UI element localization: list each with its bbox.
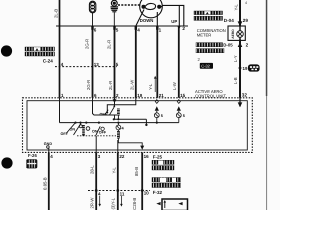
- svg-text:D-05: D-05: [223, 43, 233, 48]
- svg-text:2L-R: 2L-R: [107, 40, 112, 49]
- wire W3 vertical x114.5: [114, 26, 116, 98]
- switch S1 down arm: [136, 10, 144, 27]
- dashed connector line C-24: [55, 66, 117, 68]
- interior dashed line: [77, 135, 116, 137]
- svg-text:(3)Y-L: (3)Y-L: [110, 197, 115, 209]
- svg-text:4: 4: [245, 1, 247, 5]
- drop W2: [93, 98, 118, 115]
- svg-text:Y-L: Y-L: [148, 83, 153, 90]
- control unit inner solid box: [27, 101, 247, 150]
- drop W1: [59, 98, 61, 123]
- wire 15 drop: diamond, arrow, contact: [176, 100, 181, 123]
- wire W6 vertical x178.6: [178, 26, 180, 98]
- meter lamp: [237, 26, 244, 40]
- svg-text:Y-L: Y-L: [111, 167, 116, 174]
- coil L1 on wire W2: [89, 1, 95, 26]
- svg-text:2L-W: 2L-W: [129, 79, 134, 90]
- GND wire to pin 4: [48, 148, 50, 153]
- bus B: [114, 118, 147, 120]
- dashed link M1 to switch S1: [118, 4, 140, 6]
- label C-32 black: [200, 63, 213, 69]
- motor M1 on wire W3: [111, 0, 119, 26]
- D-05 arrow up: [238, 42, 243, 47]
- punch dot bottom: [1, 157, 12, 168]
- bottom wire pin22: [117, 153, 119, 211]
- wire 21 drop: diamond, arrow, contact: [154, 100, 159, 123]
- svg-text:DOWN: DOWN: [140, 18, 154, 23]
- svg-text:2: 2: [246, 43, 249, 48]
- drop W3: [114, 98, 116, 106]
- wire W2 vertical x92.5: [92, 26, 94, 98]
- wire W7 mid vertical: [239, 40, 241, 97]
- svg-text:6: 6: [94, 27, 97, 32]
- relay arm W4: [105, 110, 108, 115]
- svg-text:1: 1: [159, 27, 162, 32]
- svg-text:2L-B: 2L-B: [53, 9, 58, 18]
- svg-text:2G-R: 2G-R: [85, 39, 90, 49]
- svg-text:19: 19: [243, 66, 248, 71]
- svg-text:11: 11: [120, 192, 125, 197]
- svg-text:13: 13: [94, 62, 100, 67]
- svg-text:29: 29: [243, 18, 249, 23]
- svg-text:OFF: OFF: [99, 131, 107, 135]
- connector row2: [196, 49, 224, 53]
- connector D-04 block: [194, 11, 223, 20]
- bottom wire pin4: [48, 153, 50, 211]
- bottom wire pin3: [95, 153, 97, 211]
- bottom wire pin16: [141, 153, 143, 211]
- svg-text:4: 4: [137, 27, 140, 32]
- wire W4 vertical x135.8: [135, 26, 137, 98]
- junction dot meter bottom: [239, 39, 241, 41]
- connector F-32 block: [152, 178, 181, 188]
- pin16 interior feed: [118, 139, 142, 147]
- svg-text:2: 2: [182, 26, 185, 31]
- connector D-05 row1: [196, 43, 223, 47]
- svg-text:5: 5: [116, 27, 119, 32]
- svg-text:F-25: F-25: [153, 154, 163, 159]
- bus line top assembly: [56, 25, 188, 27]
- svg-text:C28-B: C28-B: [132, 198, 137, 210]
- svg-text:2G-R: 2G-R: [86, 80, 91, 90]
- svg-text:2R-W: 2R-W: [90, 197, 95, 209]
- svg-text:C-24: C-24: [43, 58, 53, 63]
- contact circles mid: [86, 127, 90, 131]
- svg-text:28-L: 28-L: [89, 165, 94, 174]
- direction arrow beside W5: [154, 76, 157, 92]
- coil R3: [116, 123, 119, 139]
- drop W4 with jog: [107, 98, 136, 112]
- bus A: [60, 122, 179, 124]
- svg-text:2L-R: 2L-R: [108, 81, 113, 90]
- junction 19 dot: [239, 67, 242, 70]
- switch S1 top link to pin2: [162, 5, 184, 26]
- connector F-26 block: [27, 160, 38, 169]
- switch arm a: [67, 123, 76, 133]
- wire 32 arrow into box: [239, 98, 241, 107]
- connector F-25 block: [152, 160, 174, 170]
- svg-text:22: 22: [119, 154, 125, 159]
- bus B to A link: [145, 119, 147, 125]
- svg-text:AERO: AERO: [231, 29, 235, 39]
- svg-text:F-32: F-32: [153, 190, 163, 195]
- switch S1 circle: [140, 0, 163, 18]
- resistor bar: [82, 125, 85, 136]
- svg-text:16: 16: [144, 154, 150, 159]
- svg-text:C-32: C-32: [201, 64, 210, 69]
- svg-text:85-B: 85-B: [134, 167, 139, 176]
- svg-text:L-W: L-W: [172, 81, 177, 90]
- wire W5 vertical x157.3: [156, 26, 158, 98]
- arrow into meter: [238, 21, 243, 26]
- svg-text:UP: UP: [171, 19, 177, 24]
- control unit outer dashed box: [23, 98, 253, 153]
- pin ticks below bus: [91, 26, 158, 30]
- GND contact: [47, 146, 50, 149]
- interior drop to pin 22: [117, 140, 119, 153]
- svg-text:L-B: L-B: [233, 77, 238, 84]
- meter box U2: [228, 26, 245, 40]
- bottom labels with arrows: [90, 197, 138, 210]
- interior drop to pin 3: [95, 136, 97, 153]
- svg-text:10: 10: [144, 191, 150, 196]
- svg-text:METER: METER: [197, 33, 212, 38]
- motor box bottom: [156, 199, 187, 211]
- contact circle 4: [116, 125, 121, 130]
- svg-text:0.85-B: 0.85-B: [42, 177, 47, 190]
- connector F-32 dashed line: [88, 190, 150, 192]
- svg-text:Y-L: Y-L: [234, 4, 239, 11]
- punch dot top: [1, 45, 12, 56]
- junction dots on F-32 line: [95, 189, 98, 192]
- svg-text:D-04: D-04: [224, 18, 234, 23]
- switch S1 up contact wire: [178, 5, 180, 26]
- switch S1 right arm: [156, 12, 158, 26]
- connector C-24 block: [25, 47, 55, 56]
- page right border: [266, 0, 268, 96]
- inline connector J/C: [248, 64, 260, 71]
- wire W1 vertical x59.5 top: [59, 0, 61, 98]
- wire W7 top vertical x240: [239, 0, 241, 26]
- tiny arrows bottom: [98, 196, 122, 207]
- svg-text:F-26: F-26: [28, 153, 37, 158]
- switch arm b: [74, 123, 82, 135]
- OFF arm right: [96, 126, 100, 135]
- svg-text:32: 32: [242, 93, 248, 98]
- svg-text:L-Y: L-Y: [233, 55, 238, 62]
- junction dots bus A: [74, 122, 76, 124]
- coil R2: [117, 109, 120, 120]
